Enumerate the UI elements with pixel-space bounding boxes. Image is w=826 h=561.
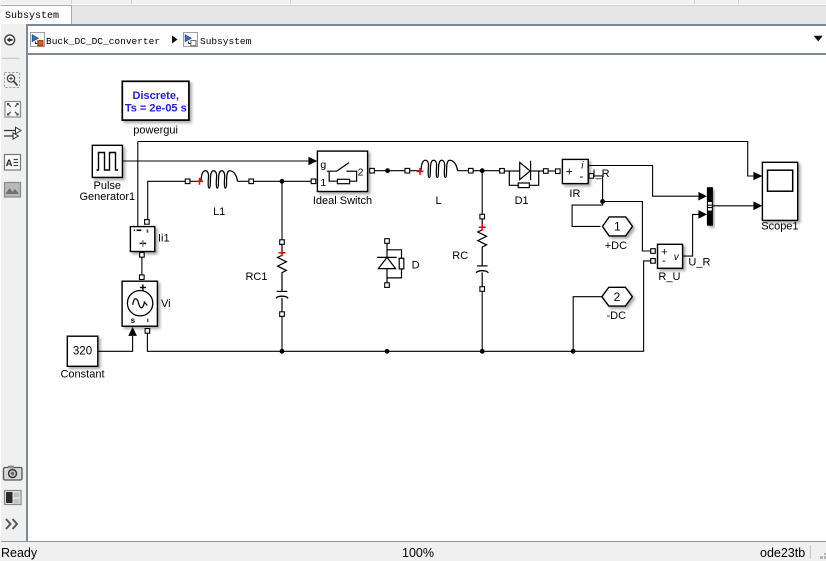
svg-text:Discrete,: Discrete, [133,90,179,102]
svg-text:2: 2 [614,290,621,304]
svg-text:D1: D1 [515,195,529,207]
svg-text:+: + [566,164,573,178]
svg-text:Constant: Constant [60,368,104,380]
svg-text:L1: L1 [213,206,225,218]
svg-text:powergui: powergui [133,124,178,136]
svg-text:2: 2 [358,166,364,178]
svg-text:-: - [662,255,666,267]
svg-text:L: L [436,195,442,207]
svg-text:-DC: -DC [607,310,627,322]
svg-text:Pulse: Pulse [94,180,122,192]
svg-text:IR: IR [569,188,580,200]
svg-text:Generator1: Generator1 [79,191,135,203]
svg-text:s: s [131,316,136,325]
svg-text:Ideal Switch: Ideal Switch [313,195,372,207]
svg-text:I_R: I_R [593,168,610,180]
svg-text:D: D [412,259,420,271]
svg-text:U_R: U_R [688,257,710,269]
svg-text:g: g [320,159,326,171]
svg-text:RC: RC [452,250,468,262]
svg-text:R_U: R_U [658,271,680,283]
svg-text:RC1: RC1 [245,271,267,283]
svg-text:-: - [579,169,583,183]
svg-text:320: 320 [73,346,92,358]
svg-text:Ts = 2e-05 s: Ts = 2e-05 s [125,103,187,115]
svg-text:1: 1 [320,177,326,189]
svg-text:Vi: Vi [161,298,171,310]
svg-text:Scope1: Scope1 [761,221,798,233]
svg-text:+DC: +DC [605,240,627,252]
svg-text:Ii1: Ii1 [158,233,170,245]
svg-text:1: 1 [614,220,621,234]
